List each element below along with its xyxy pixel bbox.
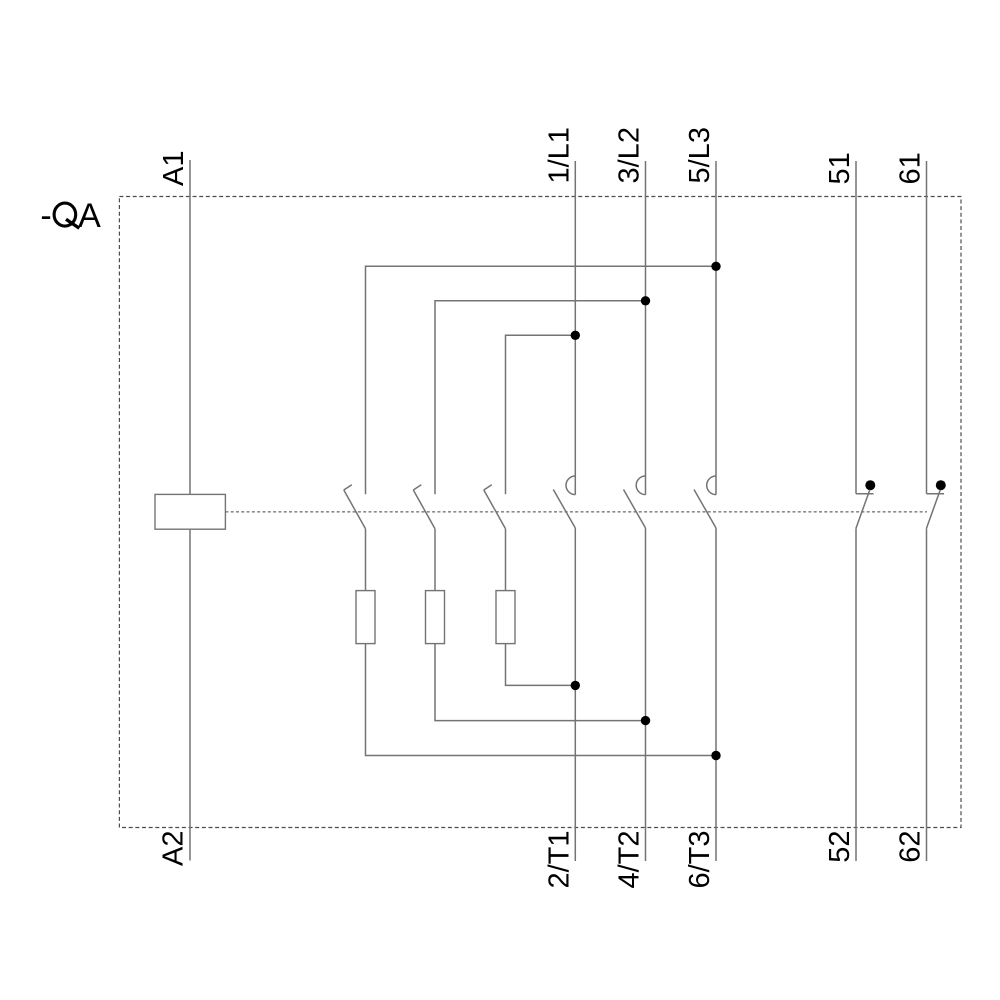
- NC contact X2 seat: [927, 493, 945, 495]
- junction node bottom R3: [571, 681, 580, 690]
- main contact M1 blade: [553, 490, 575, 529]
- wire contact to resistor R2: [434, 529, 436, 591]
- junction node top R3: [571, 331, 580, 340]
- wire 51: [855, 161, 857, 494]
- wire 62: [926, 528, 928, 861]
- wire 52: [855, 528, 857, 861]
- jumper wire B2 bottom: [435, 644, 646, 721]
- wire 4/T2: [645, 528, 647, 861]
- svg-text:A2: A2: [158, 831, 190, 866]
- main contact M3 blade: [694, 490, 716, 529]
- aux contact B1 blade: [344, 490, 366, 529]
- wire coil to A2: [189, 529, 191, 860]
- junction node top R1: [711, 262, 720, 271]
- wire A1 to coil: [189, 160, 191, 494]
- aux contact B2 tick: [413, 485, 421, 490]
- aux contact B3 tick: [484, 485, 492, 490]
- wire 3/L2: [645, 161, 647, 495]
- svg-text:3/L2: 3/L2: [614, 127, 646, 183]
- svg-text:1/L1: 1/L1: [543, 127, 575, 183]
- NC contact X1 dot: [865, 480, 875, 490]
- jumper wire B1 bottom: [366, 644, 717, 756]
- main contact M1 arc: [566, 476, 575, 495]
- junction node bottom R2: [641, 716, 650, 725]
- main contact M2 blade: [624, 490, 646, 529]
- svg-text:6/T3: 6/T3: [684, 831, 716, 889]
- NC contact X1 blade: [856, 490, 870, 528]
- wire 2/T1: [574, 528, 576, 861]
- wire contact to resistor R1: [365, 529, 367, 591]
- jumper wire B2 top: [435, 301, 646, 494]
- svg-text:51: 51: [824, 152, 856, 184]
- svg-text:2/T1: 2/T1: [543, 831, 575, 889]
- actuation link (dashed): [225, 511, 927, 513]
- contactor boundary (dashed outline): [119, 197, 961, 828]
- svg-text:4/T2: 4/T2: [614, 831, 646, 889]
- svg-text:62: 62: [895, 831, 927, 863]
- resistor R1: [356, 591, 375, 644]
- resistor R2: [426, 591, 445, 644]
- aux contact B3 blade: [484, 490, 506, 529]
- coil -QA (A1-A2): [155, 494, 225, 529]
- svg-text:61: 61: [895, 152, 927, 184]
- svg-text:52: 52: [824, 831, 856, 863]
- svg-text:5/L3: 5/L3: [684, 127, 716, 183]
- wire 5/L3: [715, 161, 717, 495]
- main contact M3 arc: [707, 476, 716, 495]
- wire contact to resistor R3: [505, 529, 507, 591]
- NC contact X2 dot: [936, 480, 946, 490]
- wire 61: [926, 161, 928, 494]
- jumper wire B1 top: [366, 266, 717, 494]
- jumper wire B3 bottom: [506, 644, 576, 686]
- junction node bottom R1: [711, 751, 720, 760]
- jumper wire B3 top: [506, 335, 576, 494]
- resistor R3: [496, 591, 515, 644]
- aux contact B2 blade: [413, 490, 435, 529]
- junction node top R2: [641, 296, 650, 305]
- svg-text:A1: A1: [158, 151, 190, 186]
- main contact M2 arc: [636, 476, 645, 495]
- NC contact X2 blade: [927, 490, 941, 528]
- wire 6/T3: [715, 528, 717, 861]
- aux contact B1 tick: [344, 485, 352, 490]
- wire 1/L1: [574, 161, 576, 495]
- NC contact X1 seat: [856, 493, 874, 495]
